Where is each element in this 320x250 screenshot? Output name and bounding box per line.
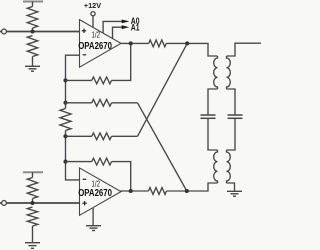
svg-text:1/2: 1/2 [92, 178, 101, 188]
resistor R2 (lower bias, top input) [27, 36, 37, 57]
svg-text:OPA2670: OPA2670 [78, 188, 112, 199]
input terminal 1 [2, 29, 7, 34]
ground (under U1b) [86, 226, 101, 231]
wire (C2 to T2) [227, 118, 236, 150]
capacitor C2 [228, 115, 243, 118]
wire (to top output node) [112, 43, 131, 80]
row4: feedback U1b: wire [66, 161, 92, 163]
wire [32, 199, 34, 204]
wire (supply pin) [92, 16, 94, 27]
wire (C1 to T2) [208, 118, 218, 150]
row1: feedback U1a: wire [66, 79, 92, 81]
node (rail/row4) [63, 160, 67, 164]
wire (U1a - input from rail) [66, 55, 80, 103]
wire (diagonal to top node B) [138, 43, 188, 136]
resistor RO1 (top series output) [149, 40, 166, 47]
label U1b - [83, 178, 87, 180]
node (bottom input) [30, 201, 34, 205]
svg-text:OPA2670: OPA2670 [78, 41, 112, 52]
node (top input) [30, 29, 34, 33]
wire [112, 135, 138, 137]
transformer T1 right winding [227, 56, 231, 89]
op-amp U1b triangle [80, 168, 122, 215]
wire [32, 172, 34, 177]
resistor RF1 [92, 77, 112, 84]
wire (A0 pin) [103, 21, 122, 33]
svg-text:1/2: 1/2 [92, 30, 101, 40]
wire (U1b output) [121, 190, 149, 193]
op-amp U1a triangle [80, 20, 122, 68]
row2: cross-couple: wire [66, 102, 92, 104]
node (rail/row2) [63, 101, 67, 105]
resistor R1 (upper bias, top input) [27, 7, 37, 29]
wire (T1 left bottom to C1) [208, 89, 218, 115]
arrow A0 [122, 20, 130, 24]
label U1b + [82, 201, 86, 205]
node A (top output) [129, 41, 133, 45]
ground (bottom-left) [25, 243, 40, 249]
wire (A1 pin) [113, 27, 123, 38]
wire (rail lower half to U1b -) [66, 136, 80, 180]
node (rail/row3) [63, 134, 67, 138]
resistor RG (gain, vertical on rail) [60, 103, 71, 137]
wire (diagonal to bottom node C) [138, 103, 187, 191]
label U1a - [83, 54, 87, 56]
resistor RX1 [92, 99, 112, 106]
wire (U1a output) [121, 42, 149, 44]
+12V terminal [91, 12, 95, 16]
wire [32, 28, 34, 32]
transformer T2 left winding [214, 150, 218, 183]
wire [32, 226, 34, 243]
rail tick top-left [23, 1, 43, 3]
wire [32, 2, 34, 7]
transformer T2 right winding [227, 150, 231, 183]
node (rail/row1) [63, 78, 67, 82]
resistor RF2 [92, 158, 112, 165]
wire (to bottom output node) [112, 162, 131, 191]
node D (bottom output) [129, 189, 133, 193]
rail tick bottom-left [23, 171, 43, 173]
wire [112, 102, 138, 104]
resistor RX2 [92, 133, 112, 140]
wire (T2 right bottom to ground) [227, 183, 235, 191]
svg-text:+12V: +12V [84, 1, 101, 10]
node B [185, 41, 189, 45]
wire (T1 secondary top to output) [227, 43, 262, 56]
ground (T2) [227, 191, 242, 196]
wire (to transformer) [166, 43, 217, 56]
svg-text:A1: A1 [131, 23, 140, 33]
transformer T1 left winding [214, 56, 218, 89]
resistor RO2 (bottom series output) [149, 188, 167, 195]
ground (top-left) [25, 66, 40, 71]
resistor R4 (lower bias, bottom input) [27, 207, 37, 226]
input terminal 2 [2, 201, 7, 206]
wire (top input to op-amp +) [6, 31, 79, 33]
wire [32, 57, 34, 67]
row3: cross-couple: wire [66, 135, 92, 137]
arrow A1 [122, 25, 130, 29]
wire (to bottom transformer) [167, 183, 218, 191]
node C [185, 189, 189, 193]
capacitor C1 [201, 115, 216, 118]
wire (U1b ground pin) [92, 208, 94, 226]
resistor R3 (upper bias, bottom input) [27, 178, 37, 199]
wire (T1 right bottom to C2) [227, 89, 236, 115]
wire (bottom input to op-amp +) [6, 202, 79, 204]
label U1a + [82, 29, 86, 33]
